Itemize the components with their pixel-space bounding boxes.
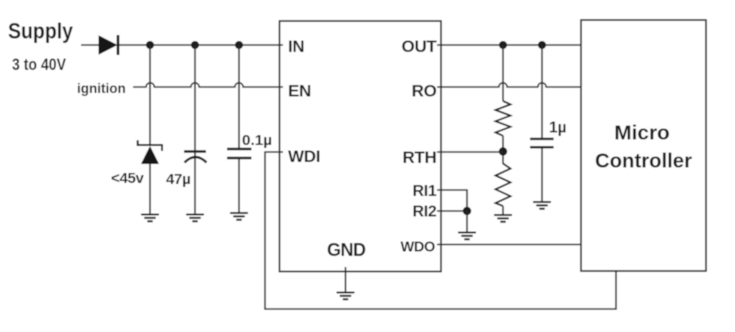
diode D1 <box>99 35 119 55</box>
wire zener to ground <box>149 164 151 214</box>
svg-text:EN: EN <box>288 82 311 101</box>
ground (0.1u) <box>230 213 248 220</box>
zener diode <45v <box>138 140 162 164</box>
node junction dot supply-0.1u <box>235 41 243 49</box>
wire RI2 pin <box>437 210 467 212</box>
svg-text:ignition: ignition <box>77 81 126 96</box>
svg-text:RO: RO <box>412 82 437 101</box>
wire RI node to ground <box>466 211 468 232</box>
svg-text:WDO: WDO <box>400 240 435 256</box>
svg-text:<45v: <45v <box>111 170 145 187</box>
svg-text:Controller: Controller <box>595 151 692 173</box>
svg-text:47µ: 47µ <box>166 171 190 188</box>
wire RO to microcontroller (hops over two verticals) <box>437 83 581 87</box>
svg-text:1µ: 1µ <box>549 120 567 137</box>
wire 1u to ground <box>541 147 543 201</box>
node junction dot OUT-1u <box>538 41 546 49</box>
svg-text:Micro: Micro <box>614 123 670 145</box>
svg-text:RTH: RTH <box>402 148 436 167</box>
wire supply node to 0.1u cap <box>238 45 240 149</box>
svg-text:3 to 40V: 3 to 40V <box>12 55 67 74</box>
capacitor C1 47u (polarized) <box>184 152 207 163</box>
node junction dot RTH <box>499 147 507 155</box>
microcontroller box <box>581 20 706 271</box>
wire RI1 pin <box>437 190 467 207</box>
wire RTH pin to node <box>437 151 503 153</box>
wire supply node to zener <box>149 45 151 145</box>
wire 0.1u to ground <box>238 158 240 212</box>
ground (RI) <box>458 233 476 240</box>
svg-text:RI1: RI1 <box>413 183 437 200</box>
ground (R2) <box>494 215 512 222</box>
resistor R2 <box>496 164 511 207</box>
svg-text:IN: IN <box>288 37 304 56</box>
resistor R1 <box>496 101 511 136</box>
svg-text:OUT: OUT <box>402 37 438 56</box>
node junction dot OUT-resistor <box>499 41 507 49</box>
ground (1u) <box>533 202 551 209</box>
wire supply to diode <box>81 44 99 46</box>
wire through 47u <box>194 152 196 214</box>
wire GND pin stub <box>345 267 347 292</box>
wire R1 to RTH node <box>502 136 504 164</box>
ground (GND pin) <box>337 293 355 300</box>
capacitor C2 0.1u <box>227 149 252 158</box>
wire WDI loop (WDI pin, down, along bottom, up to microcontroller) <box>265 152 616 309</box>
node junction dot RI1-RI2 <box>463 207 471 215</box>
svg-text:0.1µ: 0.1µ <box>242 133 272 149</box>
wire ignition to EN pin (hops over three verticals) <box>133 83 283 87</box>
node junction dot supply-zener <box>146 41 154 49</box>
wire R2 to ground <box>502 206 504 214</box>
wire diode to IN pin <box>119 44 283 46</box>
svg-text:Supply: Supply <box>8 19 74 44</box>
wire OUT node to 1u cap <box>541 45 543 139</box>
node junction dot supply-47u <box>191 41 199 49</box>
ground (zener) <box>141 215 159 222</box>
svg-text:GND: GND <box>327 240 366 260</box>
capacitor C3 1u <box>530 139 554 147</box>
wire OUT node to resistor R1 <box>502 45 504 101</box>
IC U1 box <box>280 21 442 272</box>
wire WDO to microcontroller <box>437 244 581 246</box>
svg-text:WDI: WDI <box>288 147 320 166</box>
wire supply node to 47u cap <box>194 45 196 152</box>
svg-text:RI2: RI2 <box>413 204 437 221</box>
ground (47u) <box>186 215 204 222</box>
wire OUT to microcontroller <box>437 44 581 46</box>
